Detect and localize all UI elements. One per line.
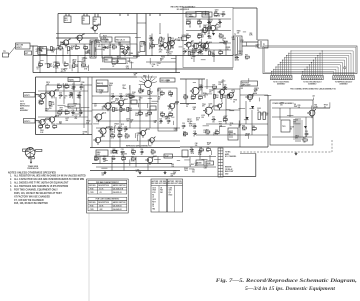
svg-text:R15: R15 [171, 38, 174, 40]
svg-text:R61: R61 [303, 138, 306, 140]
wire stub [238, 108, 245, 110]
svg-text:R13: R13 [120, 45, 123, 47]
wire [289, 108, 291, 117]
wire stub [287, 114, 293, 116]
svg-text:C9: C9 [208, 33, 210, 35]
erase block [182, 150, 188, 157]
svg-text:C2: C2 [126, 45, 128, 47]
svg-text:TP1: TP1 [3, 51, 6, 53]
transistor Q105 [105, 103, 111, 109]
svg-text:R196: R196 [51, 50, 55, 52]
wire stub [205, 25, 207, 31]
svg-text:R7: R7 [49, 64, 51, 66]
svg-text:REF DES: REF DES [89, 185, 96, 187]
svg-text:.0033: .0033 [239, 88, 243, 90]
capacitor C13 [72, 112, 74, 114]
capacitor C37 [78, 94, 80, 96]
wire power out [313, 107, 330, 109]
svg-text:C203: C203 [139, 98, 143, 100]
svg-text:NOT USED: NOT USED [175, 183, 182, 185]
level set box [131, 100, 137, 104]
svg-text:C35: C35 [59, 93, 62, 95]
transistor Q4 [123, 50, 127, 54]
svg-text:Q8: Q8 [216, 24, 218, 26]
svg-text:100: 100 [192, 171, 195, 173]
table2 grid [88, 200, 127, 210]
svg-text:330: 330 [74, 105, 77, 107]
repro border top [36, 76, 138, 78]
resistor R17 [169, 45, 171, 49]
svg-text:CR175: CR175 [207, 28, 212, 30]
svg-text:NOTES UNLESS OTHERWISE SPEC: NOTES UNLESS OTHERWISE SPECIFIED [8, 171, 56, 174]
svg-text:TP332: TP332 [217, 14, 222, 16]
node [219, 26, 222, 29]
svg-text:.0033: .0033 [199, 53, 203, 55]
resistor R18 [192, 50, 196, 52]
transistor Q109 [100, 128, 106, 134]
transistor Q10 [203, 43, 208, 48]
record head 1 [64, 16, 71, 23]
output connector P1 [258, 40, 268, 48]
resistor R54 [223, 119, 227, 121]
svg-text:5: 5 [80, 109, 81, 111]
wire [55, 64, 57, 73]
wire [198, 79, 200, 89]
svg-text:Q273: Q273 [157, 89, 161, 91]
svg-text:C118: C118 [169, 187, 173, 189]
wire stub [105, 160, 108, 162]
transistor Q103 [40, 119, 45, 124]
resistor R3 [68, 47, 70, 51]
transistor Q11 [163, 43, 168, 48]
wire stub [62, 111, 66, 113]
svg-text:C105: C105 [90, 192, 94, 194]
svg-text:CR37: CR37 [137, 133, 141, 135]
resistor R8 [56, 64, 60, 66]
svg-text:.0033: .0033 [184, 170, 188, 172]
transistor Q5 [186, 42, 191, 47]
capacitor C5 [183, 50, 185, 52]
svg-text:CR5: CR5 [169, 190, 172, 192]
wire stub [41, 49, 43, 52]
transistor Q206 [220, 90, 225, 95]
svg-text:CR56: CR56 [295, 135, 299, 137]
wire stub [134, 133, 136, 138]
wire stub [200, 46, 206, 48]
svg-text:50: 50 [81, 84, 83, 86]
svg-text:Q239: Q239 [222, 38, 226, 40]
svg-text:Q5: Q5 [192, 41, 194, 43]
capacitor C17 [159, 120, 161, 122]
svg-text:ALL CAPACITOR VALUES ARE I: ALL CAPACITOR VALUES ARE IN MICROFARADS … [14, 178, 84, 181]
wire stub [184, 159, 190, 161]
wire stub [171, 116, 174, 118]
svg-text:R160: R160 [169, 194, 173, 196]
svg-text:Q9: Q9 [169, 192, 171, 194]
reference designator table [151, 179, 183, 212]
resistor R60 [252, 128, 256, 130]
left margin connector [3, 53, 9, 57]
resistor R4 [75, 47, 79, 49]
svg-text:Q359: Q359 [280, 103, 284, 105]
wire [196, 134, 268, 136]
capacitor C28 [222, 13, 224, 15]
svg-text:25: 25 [204, 97, 206, 99]
svg-text:R18: R18 [192, 49, 195, 51]
wire stub [193, 81, 196, 83]
transistor Q3 [93, 26, 98, 31]
wire input [30, 45, 38, 47]
resistor R65 [94, 158, 98, 160]
resistor R10 [73, 64, 75, 68]
svg-text:R20: R20 [298, 105, 301, 107]
svg-text:C237: C237 [224, 116, 228, 118]
wire stub [229, 110, 234, 112]
svg-text:CR8: CR8 [241, 40, 244, 42]
wire stub [151, 100, 158, 102]
wire stub [211, 150, 213, 155]
resistor R73 [148, 90, 150, 94]
monitor label box [241, 81, 258, 86]
wire stub [205, 93, 212, 95]
wire [189, 157, 191, 163]
wire [209, 155, 211, 161]
svg-text:R366: R366 [161, 56, 165, 58]
wire TB up [255, 154, 257, 177]
wire stub [55, 48, 61, 50]
svg-text:INPUT 1: INPUT 1 [16, 47, 22, 49]
svg-text:TP302: TP302 [86, 121, 91, 123]
resistor R57 [206, 131, 210, 133]
wire stub [71, 65, 73, 72]
wire [99, 157, 101, 164]
svg-text:L106: L106 [121, 151, 125, 153]
wire [119, 42, 121, 56]
svg-text:Q3: Q3 [98, 24, 100, 26]
wire [186, 18, 231, 20]
wire [151, 34, 153, 56]
resistor R67 [131, 158, 135, 160]
resistor R53 [228, 94, 230, 98]
svg-text:.01: .01 [99, 192, 101, 194]
wire stub [179, 46, 183, 48]
svg-text:25: 25 [131, 98, 133, 100]
svg-text:.22: .22 [170, 96, 172, 98]
wire [225, 95, 227, 124]
wire stub [221, 98, 223, 102]
capacitor C11 [72, 86, 74, 88]
fold line [88, 214, 90, 301]
meter box M1 [140, 42, 145, 52]
transistor Q201 [192, 87, 199, 94]
svg-text:R77: R77 [213, 85, 216, 87]
svg-text:R177: R177 [103, 35, 107, 37]
svg-text:.22: .22 [140, 154, 142, 156]
resistor R14 [160, 37, 162, 41]
svg-text:C150: C150 [64, 95, 68, 97]
resistor R19 [186, 22, 190, 24]
wire [305, 117, 307, 137]
head connector row [137, 76, 157, 78]
resistor R27 [57, 86, 61, 88]
wire bias bus1 [92, 163, 172, 165]
svg-text:.22: .22 [104, 42, 106, 44]
svg-text:C36: C36 [69, 92, 72, 94]
wire stub [135, 36, 141, 38]
resistor R63 [131, 151, 135, 153]
svg-text:R67: R67 [131, 157, 134, 159]
wire [159, 23, 161, 34]
svg-text:C390: C390 [123, 153, 127, 155]
wire bias bus y55.5 [33, 55, 233, 57]
svg-text:100: 100 [169, 53, 172, 55]
svg-text:TP77: TP77 [60, 107, 64, 109]
svg-text:Q82: Q82 [116, 60, 119, 62]
svg-text:330: 330 [189, 123, 192, 125]
wire stub [246, 42, 248, 46]
wire stub [100, 38, 108, 40]
wire stub [67, 51, 69, 55]
node [129, 54, 132, 57]
transistor Q205 [229, 93, 234, 98]
svg-text:.01: .01 [36, 69, 38, 71]
ccir eq box [96, 87, 108, 93]
wire [129, 42, 131, 56]
svg-text:25: 25 [158, 98, 160, 100]
wire [189, 19, 191, 27]
transistor Q8 [210, 25, 215, 30]
svg-text:25: 25 [116, 62, 118, 64]
record level pot [182, 37, 187, 41]
svg-text:25: 25 [111, 98, 113, 100]
wire [109, 42, 111, 56]
transistor Q12 [170, 41, 175, 46]
svg-text:R58: R58 [215, 130, 218, 132]
wire stub [293, 123, 300, 125]
svg-text:C160: C160 [132, 92, 136, 94]
wire stage1 link [47, 49, 54, 51]
capacitor C7 [208, 21, 210, 23]
wire stub [94, 47, 96, 52]
svg-text:100: 100 [249, 97, 252, 99]
wire [39, 46, 41, 56]
svg-text:.01: .01 [159, 123, 161, 125]
wire stub [176, 40, 180, 42]
node [119, 54, 122, 57]
wire stub [158, 39, 160, 44]
svg-text:50: 50 [83, 133, 85, 135]
svg-text:L208: L208 [167, 116, 171, 118]
svg-text:CR52: CR52 [255, 45, 259, 47]
wire stub [154, 159, 161, 161]
harness middle wires [302, 72, 304, 76]
svg-text:50: 50 [102, 109, 104, 111]
svg-text:R30: R30 [51, 102, 54, 104]
wire stub [162, 116, 170, 118]
record amp inner box [102, 44, 137, 58]
wire bias bus2 [90, 170, 180, 172]
wire stub [204, 86, 212, 88]
wire stub [64, 106, 70, 108]
wire stub [58, 104, 66, 106]
wire [135, 157, 137, 168]
capacitor C24 [140, 151, 142, 153]
svg-text:C53: C53 [192, 169, 195, 171]
table1 header [88, 180, 127, 183]
svg-text:INPUT 1: INPUT 1 [24, 95, 30, 97]
capacitor C4 [159, 45, 161, 47]
wire [46, 84, 92, 86]
wire [62, 48, 64, 56]
svg-text:C277: C277 [198, 152, 202, 154]
wire stub [248, 78, 250, 82]
resistor R208 [258, 112, 260, 120]
svg-text:.01: .01 [182, 128, 184, 130]
diode CR201 [251, 106, 254, 109]
svg-text:L377: L377 [124, 51, 128, 53]
svg-text:C21: C21 [212, 117, 215, 119]
svg-text:.01: .01 [137, 135, 139, 137]
svg-text:R23: R23 [219, 34, 222, 36]
resistor R2 [59, 47, 63, 49]
svg-text:330: 330 [75, 49, 78, 51]
wire stub [42, 48, 48, 50]
svg-text:10: 10 [64, 97, 66, 99]
svg-text:L6: L6 [152, 197, 154, 199]
svg-text:Q228: Q228 [95, 158, 99, 160]
wire [149, 88, 151, 128]
node [199, 26, 202, 29]
wire stub [101, 56, 103, 62]
svg-text:CR92: CR92 [95, 40, 99, 42]
capacitor C32 [193, 133, 195, 135]
svg-text:DES USED: DES USED [167, 183, 174, 185]
svg-text:R51: R51 [216, 95, 219, 97]
wire stub [203, 125, 209, 127]
repro out box [158, 88, 177, 131]
svg-text:R71: R71 [245, 55, 248, 57]
svg-text:50: 50 [233, 102, 235, 104]
svg-text:T2: T2 [234, 34, 236, 36]
wire stub [131, 61, 133, 68]
resistor R1 [51, 47, 53, 51]
ground b2 [139, 171, 141, 173]
svg-text:330: 330 [198, 99, 201, 101]
terminal strip TB1 [218, 148, 223, 177]
capacitor C6 [199, 50, 201, 52]
svg-text:R72: R72 [139, 89, 142, 91]
wire ch2 bus [38, 116, 88, 118]
svg-text:C31: C31 [193, 123, 196, 125]
resistor R35 [53, 126, 57, 128]
transistor Q2 [77, 35, 82, 40]
svg-text:TP26: TP26 [230, 123, 234, 125]
rec sw box [112, 59, 126, 64]
wire stub [210, 22, 212, 28]
svg-text:R59: R59 [242, 126, 245, 128]
svg-text:50: 50 [183, 53, 185, 55]
wire drops top [39, 56, 41, 64]
svg-text:TO NO 1 ELECTRONIC: TO NO 1 ELECTRONIC [273, 82, 290, 84]
resistor R75 [148, 112, 152, 114]
svg-text:C17: C17 [159, 118, 162, 120]
resistor R66 [122, 158, 126, 160]
svg-text:R68: R68 [199, 147, 202, 149]
wire vert x268 [267, 95, 269, 147]
svg-text:.22: .22 [167, 123, 169, 125]
attenuator box [25, 51, 32, 55]
mic ampl box A1 [38, 47, 47, 55]
svg-text:C30: C30 [182, 123, 185, 125]
wire [199, 19, 201, 27]
svg-text:CR398: CR398 [245, 133, 250, 135]
svg-text:R180: R180 [159, 49, 163, 51]
wire [279, 108, 281, 120]
svg-text:ALL DIODES ARE TYPE 1N270A: ALL DIODES ARE TYPE 1N270A OR EQUIVALENT [14, 182, 69, 185]
svg-text:50: 50 [290, 129, 292, 131]
wire [199, 152, 201, 160]
resistor R51 [213, 94, 215, 98]
wire [206, 123, 268, 125]
svg-text:C18: C18 [167, 118, 170, 120]
wire vert x176 [175, 56, 177, 73]
wire [239, 89, 241, 147]
transistor Q1 [63, 40, 68, 45]
wire stub [189, 168, 194, 170]
svg-text:R10: R10 [75, 64, 78, 66]
resistor R46 [118, 135, 122, 137]
rotary switch S101 [145, 81, 152, 88]
svg-text:25: 25 [257, 110, 259, 112]
svg-text:R12: R12 [112, 45, 115, 47]
svg-text:CR285: CR285 [225, 47, 230, 49]
resistor R48 [184, 96, 188, 98]
wire [83, 85, 85, 128]
svg-text:TP167: TP167 [324, 104, 329, 106]
svg-text:R15, 106, R6 MAY BE OMITTED: R15, 106, R6 MAY BE OMITTED [14, 202, 48, 205]
svg-text:Q321: Q321 [126, 119, 130, 121]
wire stub [171, 58, 176, 60]
wire stub [129, 58, 131, 62]
wire stub [248, 134, 250, 139]
resistor R12 [112, 46, 116, 48]
wire [56, 33, 98, 35]
mic line input jack [16, 43, 31, 49]
wire stub [147, 103, 149, 108]
node [159, 32, 162, 35]
svg-text:R396: R396 [60, 42, 64, 44]
resistor R33 [39, 126, 43, 128]
svg-text:TP139: TP139 [205, 49, 210, 51]
erase head [93, 17, 101, 25]
svg-text:5: 5 [224, 118, 225, 120]
svg-text:100: 100 [112, 49, 115, 51]
svg-text:Q67: Q67 [238, 125, 241, 127]
wire stub [218, 126, 220, 131]
svg-text:10: 10 [168, 109, 170, 111]
svg-text:50: 50 [198, 35, 200, 37]
svg-text:C33: C33 [199, 85, 202, 87]
svg-text:T5: T5 [152, 206, 154, 208]
wire stub [129, 159, 131, 165]
svg-text:TP93: TP93 [202, 104, 206, 106]
svg-text:330: 330 [298, 107, 301, 109]
svg-text:HD 1: HD 1 [65, 20, 69, 22]
svg-text:C362: C362 [106, 46, 110, 48]
connector block J102 [302, 76, 324, 80]
diode CR301 [304, 126, 307, 129]
resistor R28 [65, 86, 69, 88]
